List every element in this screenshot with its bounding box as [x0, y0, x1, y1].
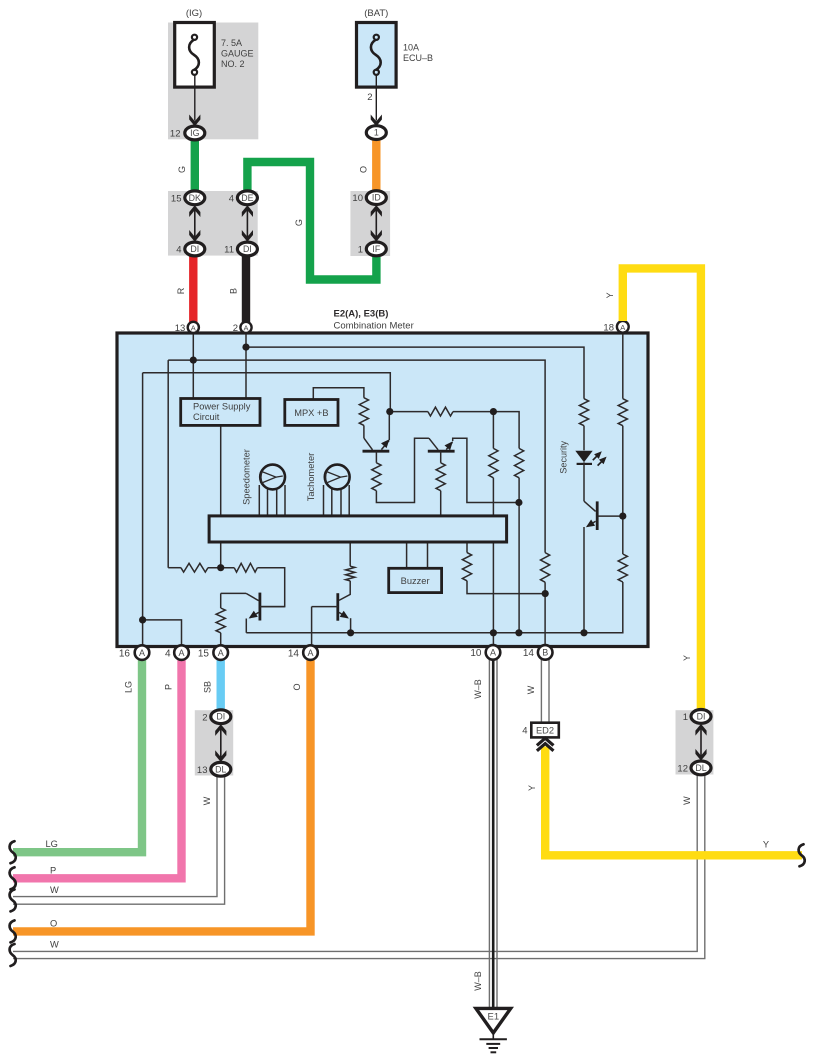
- svg-text:A: A: [243, 324, 248, 333]
- svg-text:Power Supply: Power Supply: [193, 402, 251, 412]
- svg-text:P: P: [50, 865, 56, 875]
- svg-text:Buzzer: Buzzer: [401, 576, 430, 586]
- svg-text:W: W: [202, 796, 212, 805]
- svg-text:MPX +B: MPX +B: [294, 408, 328, 418]
- svg-text:14: 14: [288, 648, 300, 659]
- svg-text:10A: 10A: [403, 43, 419, 53]
- svg-text:4: 4: [165, 648, 171, 659]
- svg-text:G: G: [294, 219, 304, 226]
- svg-text:E2(A), E3(B): E2(A), E3(B): [334, 309, 389, 320]
- svg-text:12: 12: [170, 129, 181, 140]
- svg-text:DI: DI: [243, 244, 252, 254]
- svg-text:DE: DE: [241, 193, 253, 203]
- svg-text:7. 5A: 7. 5A: [221, 38, 242, 48]
- svg-text:SB: SB: [203, 681, 213, 693]
- svg-text:W: W: [526, 685, 536, 694]
- svg-text:O: O: [359, 166, 369, 173]
- svg-text:O: O: [50, 918, 57, 928]
- svg-text:A: A: [490, 648, 496, 658]
- svg-text:DL: DL: [215, 764, 226, 774]
- svg-text:G: G: [177, 166, 187, 173]
- svg-text:(IG): (IG): [186, 8, 202, 19]
- svg-text:10: 10: [470, 648, 482, 659]
- svg-text:4: 4: [522, 726, 527, 737]
- svg-text:W: W: [50, 885, 59, 895]
- svg-text:(BAT): (BAT): [364, 8, 388, 19]
- svg-text:Circuit: Circuit: [193, 412, 220, 422]
- svg-text:DI: DI: [216, 712, 225, 722]
- svg-text:A: A: [307, 648, 313, 658]
- svg-text:1: 1: [374, 128, 379, 138]
- svg-text:1: 1: [358, 245, 363, 256]
- svg-text:13: 13: [197, 765, 208, 776]
- svg-text:2: 2: [233, 323, 238, 334]
- svg-text:11: 11: [224, 245, 234, 256]
- svg-text:Combination Meter: Combination Meter: [334, 321, 414, 332]
- svg-text:DL: DL: [695, 763, 706, 773]
- svg-text:DI: DI: [190, 244, 199, 254]
- svg-text:A: A: [191, 324, 196, 333]
- svg-text:15: 15: [198, 648, 210, 659]
- svg-text:LG: LG: [124, 681, 134, 693]
- svg-text:R: R: [176, 287, 186, 294]
- svg-text:1: 1: [683, 712, 688, 723]
- svg-text:10: 10: [352, 193, 363, 204]
- svg-text:B: B: [542, 648, 548, 658]
- svg-text:Y: Y: [682, 655, 692, 661]
- svg-text:15: 15: [171, 193, 182, 204]
- svg-text:E1: E1: [487, 1012, 499, 1023]
- svg-text:16: 16: [119, 648, 131, 659]
- svg-text:Y: Y: [605, 292, 615, 298]
- svg-text:W–B: W–B: [473, 971, 483, 991]
- svg-text:A: A: [218, 648, 224, 658]
- svg-text:IG: IG: [190, 128, 199, 138]
- svg-text:4: 4: [176, 245, 181, 256]
- svg-text:DI: DI: [697, 711, 706, 721]
- svg-text:A: A: [178, 648, 184, 658]
- svg-text:Tachometer: Tachometer: [306, 453, 316, 502]
- svg-text:LG: LG: [46, 839, 58, 849]
- svg-text:14: 14: [523, 648, 535, 659]
- svg-text:Y: Y: [527, 785, 537, 791]
- svg-text:2: 2: [202, 712, 207, 723]
- svg-text:DK: DK: [189, 193, 201, 203]
- svg-text:GAUGE: GAUGE: [221, 49, 254, 59]
- svg-text:4: 4: [229, 193, 234, 204]
- svg-text:W–B: W–B: [473, 679, 483, 699]
- svg-text:O: O: [292, 683, 302, 690]
- svg-text:B: B: [228, 288, 238, 294]
- svg-text:12: 12: [677, 764, 688, 775]
- svg-text:A: A: [139, 648, 145, 658]
- svg-text:Security: Security: [559, 441, 569, 474]
- svg-text:13: 13: [175, 323, 186, 334]
- svg-text:P: P: [164, 684, 174, 690]
- svg-text:ID: ID: [372, 193, 381, 203]
- svg-text:W: W: [50, 939, 59, 949]
- svg-text:NO. 2: NO. 2: [221, 59, 245, 69]
- svg-text:18: 18: [603, 323, 614, 334]
- svg-text:ECU–B: ECU–B: [403, 53, 433, 63]
- svg-text:ED2: ED2: [536, 725, 554, 735]
- svg-text:Y: Y: [763, 840, 769, 850]
- svg-text:Speedometer: Speedometer: [242, 449, 252, 505]
- svg-text:A: A: [620, 323, 625, 332]
- svg-text:IF: IF: [372, 244, 380, 254]
- svg-text:W: W: [682, 796, 692, 805]
- svg-text:2: 2: [367, 92, 372, 103]
